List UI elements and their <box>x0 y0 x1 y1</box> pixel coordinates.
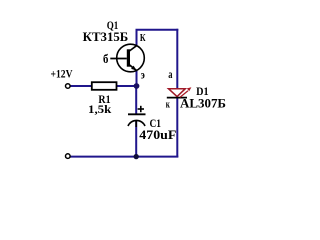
wire: R1 to node A <box>117 85 137 87</box>
resistor R1 <box>92 82 117 90</box>
svg-text:AL307Б: AL307Б <box>180 97 226 111</box>
wire: LED cathode down to bottom rail <box>176 98 178 158</box>
wire: collector vertical from Q1 to top rail <box>136 30 138 46</box>
svg-text:к: к <box>166 99 171 111</box>
LED D1 cathode bar <box>167 97 187 99</box>
wire: top rail horizontal <box>136 29 179 31</box>
svg-text:+12V: +12V <box>51 69 74 81</box>
LED D1 triangle (anode) <box>169 89 186 97</box>
wire: +12V terminal to R1 <box>70 85 92 87</box>
wire: right drop from top rail to LED anode <box>176 29 178 89</box>
LED D1 light arrow <box>180 91 188 97</box>
svg-text:a: a <box>168 67 172 81</box>
capacitor C1 bottom plate (arc) <box>128 120 145 126</box>
wire: C1 bottom plate down to bottom rail <box>135 121 137 156</box>
wire: bottom rail horizontal <box>70 156 178 158</box>
svg-text:1,5k: 1,5k <box>88 104 112 116</box>
terminal: +12V input (open circle) <box>66 84 71 89</box>
transistor Q1 emitter lead (diagonal with arrow) <box>129 64 137 70</box>
transistor Q1 body (circle) <box>117 44 145 72</box>
capacitor C1 polarity plus <box>138 108 144 110</box>
terminal: bottom common (open circle) <box>66 154 71 159</box>
transistor Q1 base bar <box>127 49 130 66</box>
svg-text:КТ315Б: КТ315Б <box>83 30 129 44</box>
node B: junction dot (C1/bottom rail) <box>134 154 139 159</box>
node A: junction dot (R1/emitter/C1) <box>134 83 140 89</box>
svg-text:б: б <box>103 51 109 66</box>
wire: node A down to C1 top plate <box>135 86 137 114</box>
svg-text:К: К <box>140 33 146 44</box>
svg-text:э: э <box>141 68 145 82</box>
svg-text:470uF: 470uF <box>139 128 176 142</box>
transistor Q1 collector lead (diagonal) <box>129 45 138 51</box>
capacitor C1 top plate <box>128 113 146 115</box>
transistor Q1 base lead <box>110 58 127 60</box>
wire: node A up to emitter of Q1 <box>136 70 138 86</box>
